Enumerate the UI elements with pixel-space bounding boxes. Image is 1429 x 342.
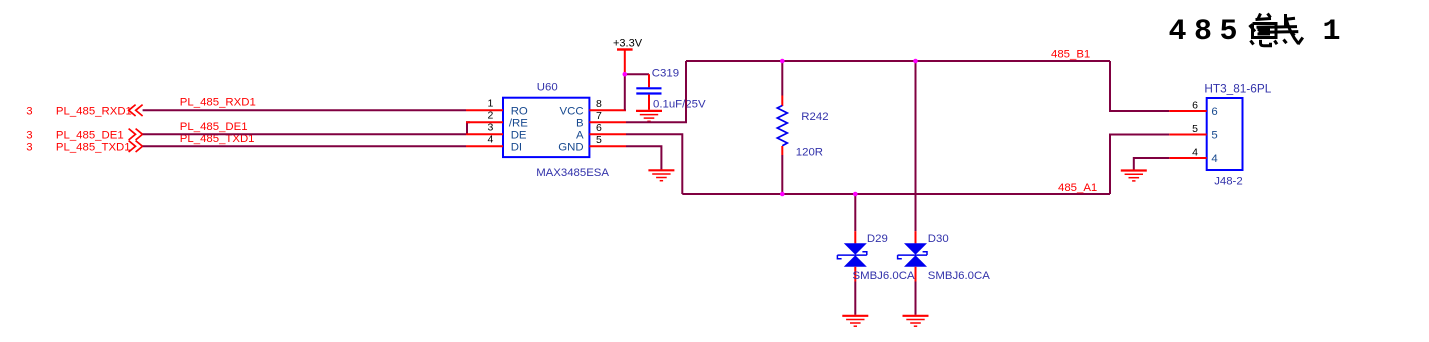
U60 pin 5 GND — [558, 134, 626, 154]
svg-text:/RE: /RE — [509, 118, 528, 130]
wire 485_A1 bus — [682, 193, 1110, 195]
svg-text:SMBJ6.0CA: SMBJ6.0CA — [928, 270, 990, 282]
ground below U60 pin5 — [648, 170, 674, 180]
junction dot D30 on 485_B1 — [913, 59, 918, 64]
svg-text:120R: 120R — [796, 146, 823, 158]
svg-text:0.1uF/25V: 0.1uF/25V — [653, 98, 706, 110]
junction dot at +3.3V node — [623, 72, 628, 77]
svg-text:4: 4 — [487, 134, 493, 146]
svg-text:3: 3 — [26, 105, 32, 117]
svg-text:2: 2 — [487, 110, 493, 122]
U60 pin 3 DE — [466, 122, 527, 142]
svg-text:7: 7 — [596, 110, 602, 122]
svg-text:D29: D29 — [867, 233, 888, 245]
U60 pin 8 VCC — [560, 98, 626, 118]
title 485 interface 1 — [1169, 15, 1341, 49]
power +3.3V symbol — [613, 38, 643, 75]
svg-text:485: 485 — [1169, 15, 1246, 49]
wire U60 pin6 A down to 485_A1 bus — [626, 134, 682, 194]
svg-text:5: 5 — [1192, 123, 1198, 135]
svg-text:J48-2: J48-2 — [1214, 176, 1243, 188]
junction dot R242 top on 485_B1 — [780, 59, 785, 64]
port PL_485_TXD1 (sheet entry, left) — [26, 141, 142, 154]
J48-2 pin 6 — [1169, 100, 1217, 119]
svg-text:485_B1: 485_B1 — [1051, 49, 1090, 61]
wire J48-2 pin4 to ground — [1134, 158, 1170, 170]
wire U60 pin5 GND to ground — [626, 146, 661, 169]
port PL_485_RXD1 (sheet entry, left) — [26, 105, 142, 118]
U60 pin 1 RO — [466, 98, 528, 118]
svg-text:3: 3 — [487, 122, 493, 134]
svg-text:D30: D30 — [928, 233, 949, 245]
wire D29 to 485_A1 bus — [854, 194, 856, 231]
svg-text:MAX3485ESA: MAX3485ESA — [536, 167, 609, 179]
svg-text:1: 1 — [1323, 15, 1341, 49]
svg-text:DI: DI — [511, 142, 522, 154]
connector J48-2 body (HT3_81-6PL) — [1204, 81, 1271, 187]
svg-text:A: A — [576, 130, 584, 142]
svg-text:1: 1 — [487, 98, 493, 110]
wire U60 pin7 B up to 485_B1 bus — [626, 61, 686, 122]
svg-text:HT3_81-6PL: HT3_81-6PL — [1204, 81, 1271, 95]
svg-text:6: 6 — [1192, 100, 1198, 112]
svg-text:6: 6 — [596, 122, 602, 134]
wire +3.3V junction to C319 — [625, 73, 649, 75]
svg-text:3: 3 — [26, 141, 32, 153]
svg-text:U60: U60 — [537, 82, 558, 94]
wire jog pin2 /RE to pin3 DE — [467, 122, 470, 134]
wire D29 to ground — [854, 282, 856, 315]
capacitor C319 — [636, 68, 706, 111]
title CJK glyph (garbled two overlapping chars) — [1250, 14, 1303, 46]
wire 485_A1 bus up to J48-2 pin5 — [1110, 135, 1169, 195]
svg-text:B: B — [576, 118, 584, 130]
wire D30 to ground — [915, 282, 917, 315]
ground below D30 — [903, 316, 929, 326]
svg-text:485_A1: 485_A1 — [1058, 182, 1097, 194]
J48-2 pin 4 — [1169, 147, 1217, 166]
svg-text:6: 6 — [1211, 106, 1217, 118]
wire PL_485_TXD1 to U60 pin4 — [143, 145, 466, 147]
op-amp U60 body (MAX3485ESA) — [503, 82, 609, 179]
svg-text:PL_485_RXD1: PL_485_RXD1 — [180, 97, 256, 109]
ground below C319 — [636, 111, 662, 121]
wire D30 to 485_B1 bus (crosses 485_A1) — [915, 61, 917, 231]
junction dot R242 bottom on 485_A1 — [780, 192, 785, 197]
U60 pin 7 B — [576, 110, 626, 130]
svg-text:PL_485_DE1: PL_485_DE1 — [180, 121, 248, 133]
ground below D29 — [842, 316, 868, 326]
J48-2 pin 5 — [1169, 123, 1217, 142]
wire PL_485_RXD1 to U60 pin1 — [143, 109, 466, 111]
wire +3.3V to VCC pin8 — [624, 74, 626, 110]
svg-text:8: 8 — [596, 98, 602, 110]
svg-text:3: 3 — [26, 129, 32, 141]
junction dot D29 on 485_A1 — [853, 192, 858, 197]
wire PL_485_DE1 to U60 pin3 — [143, 133, 466, 135]
U60 pin 2 /RE — [466, 110, 528, 130]
port PL_485_DE1 (sheet entry, left) — [26, 129, 142, 142]
svg-text:+3.3V: +3.3V — [613, 38, 643, 50]
svg-text:PL_485_DE1: PL_485_DE1 — [56, 129, 124, 141]
TVS diode D29 SMBJ6.0CA — [837, 231, 915, 282]
svg-text:4: 4 — [1211, 153, 1217, 165]
U60 pin 6 A — [576, 122, 626, 142]
svg-text:C319: C319 — [652, 68, 679, 80]
svg-text:RO: RO — [511, 106, 528, 118]
svg-text:PL_485_TXD1: PL_485_TXD1 — [56, 141, 131, 153]
svg-text:PL_485_RXD1: PL_485_RXD1 — [56, 105, 132, 117]
svg-text:DE: DE — [511, 130, 527, 142]
TVS diode D30 SMBJ6.0CA — [898, 231, 991, 282]
U60 pin 4 DI — [466, 134, 522, 154]
svg-text:5: 5 — [1211, 130, 1217, 142]
svg-text:R242: R242 — [801, 111, 828, 123]
svg-text:5: 5 — [596, 134, 602, 146]
svg-text:GND: GND — [558, 142, 583, 154]
svg-text:SMBJ6.0CA: SMBJ6.0CA — [853, 270, 915, 282]
svg-text:VCC: VCC — [560, 106, 584, 118]
resistor R242 — [777, 61, 828, 194]
svg-text:4: 4 — [1192, 147, 1198, 159]
ground at J48-2 pin4 — [1121, 171, 1147, 181]
wire 485_B1 bus down to J48-2 pin6 — [1110, 61, 1169, 111]
wire 485_B1 bus — [686, 60, 1110, 62]
